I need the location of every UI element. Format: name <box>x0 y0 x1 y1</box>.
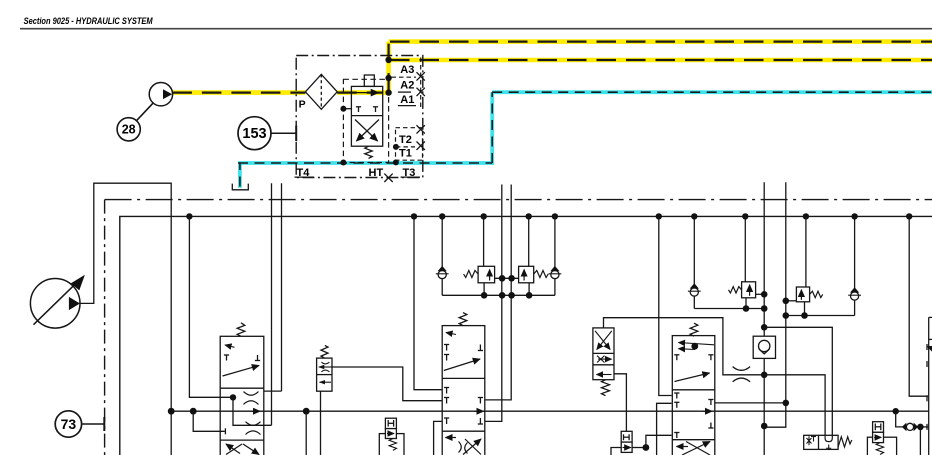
leader line 28 to supply source <box>137 103 154 121</box>
relief drain header left <box>442 292 555 299</box>
comp valve PC2 (right) <box>867 422 896 455</box>
svg-text:153: 153 <box>242 126 266 142</box>
valve D (solenoid section) <box>593 328 614 380</box>
test point circle left of RV3 <box>688 216 701 308</box>
wire: dashed black over yellow supply lines <box>172 42 932 93</box>
wire valve D to flow valve <box>614 374 626 432</box>
junction dots in manifold 153 <box>340 57 399 166</box>
valve E body <box>672 336 715 455</box>
relief drain header RV3 <box>694 291 767 312</box>
supply rail bus1 <box>120 216 932 455</box>
wire valve C bottom left port <box>434 421 442 455</box>
header title <box>24 16 153 26</box>
work line pair right <box>764 182 786 455</box>
svg-text:T2: T2 <box>399 134 412 146</box>
relief group left: test point circle left <box>436 216 449 295</box>
valve B (pilot regulator) <box>317 358 332 391</box>
callout circle 153 <box>238 117 271 150</box>
wire bus2 to valve G via orifice point <box>896 411 928 455</box>
valve A cell1 symbols <box>223 345 261 376</box>
supply source circle (from pump 28) <box>149 83 172 106</box>
svg-text:28: 28 <box>122 123 136 137</box>
valve C body <box>442 326 485 455</box>
valve A left port tick <box>224 428 226 434</box>
svg-text:T1: T1 <box>399 148 412 160</box>
svg-text:A3: A3 <box>400 64 414 76</box>
yellow pressure highlight: pump to filter <box>172 42 932 95</box>
svg-text:73: 73 <box>61 416 77 432</box>
wire: dashed black over cyan return lines <box>238 92 932 186</box>
valve C cell2 symbols <box>444 388 484 425</box>
valve E cell3 symbols <box>677 442 711 455</box>
wire CV1 to comp valve <box>764 327 832 437</box>
wire valve D to orifice <box>604 318 826 437</box>
test point circle right of RV2 <box>549 216 562 295</box>
wire far right riser <box>909 216 928 396</box>
valve A spring <box>237 323 245 337</box>
valve D spring <box>602 380 610 396</box>
svg-text:P: P <box>299 99 306 111</box>
port A1 row <box>398 94 416 106</box>
flow control FC1 <box>621 431 632 452</box>
wire FC1 to valve E <box>611 435 672 455</box>
bottom port labels T4 HT T3 <box>295 167 421 179</box>
callout circle 28 <box>117 118 140 141</box>
wire bus1 to valve A pilot <box>189 216 236 400</box>
relief drain header RV4 <box>783 312 855 319</box>
callout circle 73 <box>55 411 81 437</box>
valve A cell2 venturi symbols <box>244 392 261 435</box>
svg-text:A2: A2 <box>400 80 414 92</box>
leader line 153 <box>271 126 296 142</box>
port A2 row <box>398 80 425 97</box>
valve A cell3 symbols <box>226 444 259 455</box>
filter F1 (diamond) <box>305 74 337 109</box>
header rule <box>20 28 932 30</box>
pump P1 <box>30 275 85 328</box>
valve B spring <box>321 345 328 358</box>
wire bus1 to valve E inlet <box>659 216 672 395</box>
orifice O1 <box>733 367 751 382</box>
valve V153 dashed pilot enclosure <box>343 79 388 162</box>
bus1 junction dots <box>186 213 912 219</box>
valve C cell3 symbols <box>446 438 482 455</box>
port column dashed line <box>420 58 422 109</box>
tank drain bracket <box>232 184 248 190</box>
T2 T1 dashed port box <box>396 125 425 160</box>
valve V153 spring <box>365 146 372 158</box>
tank rail bus2 <box>171 410 929 412</box>
wire valve E work line <box>715 400 789 407</box>
valve E spring <box>690 323 698 336</box>
svg-text:Section 9025 - HYDRAULIC SYSTE: Section 9025 - HYDRAULIC SYSTEM <box>24 16 153 26</box>
wire valve B to valve C <box>332 367 442 401</box>
svg-text:A1: A1 <box>400 94 414 106</box>
wire valve E drain <box>657 403 672 455</box>
check valve CV1 <box>753 324 775 378</box>
pilot line <box>343 108 351 110</box>
port HT plug X <box>384 174 392 182</box>
valve V153 (2-position) <box>351 86 382 146</box>
relief valve RV3 <box>729 216 765 308</box>
relief valve RV2 <box>519 216 549 295</box>
work line pair left <box>233 183 282 425</box>
wire bus1 to valve C port <box>414 216 442 389</box>
manifold 153 dash-dot enclosure <box>296 56 423 178</box>
relief valve RV1 <box>464 216 495 295</box>
work line pair middle <box>485 185 511 422</box>
shuttle valve SH1 (bottom right) <box>804 435 852 449</box>
valve C spring <box>459 313 467 326</box>
valve E cell2 symbols <box>674 393 713 438</box>
valve V153 pilot cap <box>364 75 374 86</box>
valve G (right edge, clipped) <box>927 317 932 455</box>
wire between RV1 RV2 <box>495 275 519 282</box>
junction dot on return riser <box>761 423 768 430</box>
wire bus2 drop x306 <box>305 411 307 455</box>
leader line 73 <box>82 417 105 431</box>
valve A body <box>220 336 264 455</box>
svg-text:HT: HT <box>369 167 384 179</box>
test point circle right of RV4 <box>848 216 861 315</box>
bus2 junction dots <box>168 408 899 415</box>
pump outlet wire <box>78 183 171 455</box>
port A3 row <box>392 64 425 81</box>
cyan return highlight <box>238 92 932 188</box>
wire bus2 to valve A port <box>193 411 225 431</box>
relief valve RV4 <box>783 216 823 315</box>
system boundary dash-dot <box>105 200 932 455</box>
comp valve PC1 (mid) <box>379 418 404 455</box>
wire valve B drain <box>320 391 322 455</box>
valve C cell1 symbols <box>444 333 483 371</box>
valve E cell1 symbols <box>674 343 714 382</box>
